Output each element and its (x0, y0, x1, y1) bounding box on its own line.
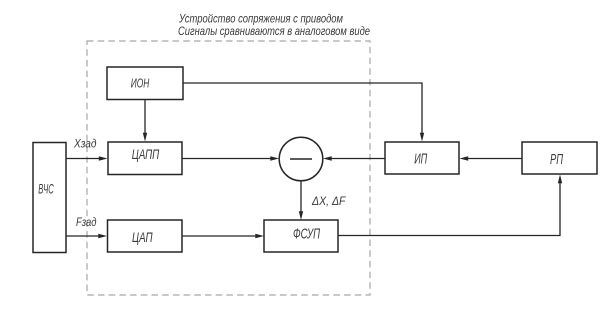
wire ION to TsAPP (143, 100, 147, 142)
wire TsAPP to summing junction (182, 156, 279, 160)
svg-text:Сигналы сравниваются в аналого: Сигналы сравниваются в аналоговом виде (178, 24, 370, 38)
wire summing junction to FSUP (299, 181, 303, 220)
svg-text:ЦАП: ЦАП (132, 229, 153, 245)
svg-text:ИОН: ИОН (131, 76, 150, 91)
block ION (107, 67, 183, 100)
svg-text:ФСУП: ФСУП (293, 226, 320, 243)
svg-text:ЦАПП: ЦАПП (132, 146, 160, 162)
dashed boundary box (87, 41, 370, 295)
svg-text:ИП: ИП (414, 151, 427, 168)
wire FSUP to RP (bottom route) (338, 175, 562, 236)
block FSUP (264, 220, 338, 252)
block IP (385, 142, 459, 174)
summing junction (279, 137, 323, 181)
block VChS (33, 143, 66, 253)
wire VChS to TsAP (Fzad) (66, 234, 107, 238)
block TsAPP (108, 142, 182, 175)
wire VChS to TsAPP (Xzad) (66, 156, 108, 160)
block RP (522, 142, 597, 174)
svg-text:Fзад: Fзад (76, 215, 97, 229)
wire ION to IP (top route) (183, 83, 424, 142)
svg-text:ВЧС: ВЧС (38, 181, 54, 197)
wire RP to IP (460, 156, 523, 160)
block TsAP (108, 220, 183, 252)
wire IP to summing junction (323, 156, 385, 160)
svg-text:Хзад: Хзад (73, 137, 97, 151)
svg-text:ΔX, ΔF: ΔX, ΔF (311, 194, 346, 208)
wire TsAP to FSUP (182, 234, 264, 238)
svg-text:РП: РП (550, 151, 563, 168)
